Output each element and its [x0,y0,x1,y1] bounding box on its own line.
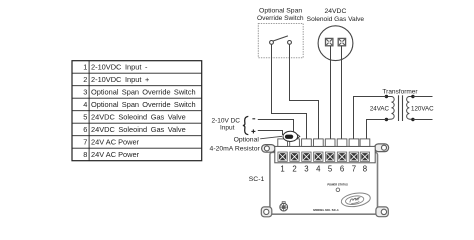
wire: 120VAC line bottom [413,119,433,121]
svg-text:7: 7 [352,165,356,174]
mounting ear top-left [262,145,276,153]
svg-text:24V AC Power: 24V AC Power [91,150,140,159]
legend row numbers 1-8 [83,63,87,160]
svg-text:2: 2 [83,75,87,84]
transformer T1 secondary winding (120VAC side) [407,97,413,120]
terminal numbers 1-8 [280,165,367,174]
mounting ear bottom-right [376,207,388,217]
terminal block [275,146,375,162]
brace { [243,116,248,134]
legend row descriptions [91,63,196,160]
svg-text:24VDC Soleoind Gas Valve: 24VDC Soleoind Gas Valve [91,125,186,134]
svg-text:Optional Span: Optional Span [259,7,302,14]
label: 24VAC [370,105,390,112]
svg-text:6: 6 [340,165,344,174]
svg-text:1: 1 [83,63,87,72]
label: Optional 4-20mA Resistor [210,137,261,153]
svg-text:2-10V DC: 2-10V DC [211,117,240,124]
svg-text:24V AC Power: 24V AC Power [91,138,140,147]
plus symbol [251,129,255,133]
manufacturer logo oval [340,191,371,208]
label: Optional Span Override Switch [257,7,304,22]
legend table border [72,61,202,161]
svg-text:8: 8 [363,165,367,174]
SC-1 enclosure body [270,152,378,214]
wire W7: transformer 24VAC top to terminal 7 [354,97,387,144]
label: 120VAC [411,105,434,112]
svg-text:5: 5 [328,165,333,174]
mounting ear bottom-left [261,207,272,217]
wire W8: transformer 24VAC bottom to terminal 8 [367,120,387,144]
svg-text:Override Switch: Override Switch [257,15,304,22]
svg-text:Transformer: Transformer [382,89,418,96]
wire entry slots 1-8 [278,139,370,147]
transformer T1 core [399,95,403,121]
wire W1: input minus to terminal 2 [258,120,294,135]
label: model no SC-1 [313,208,339,212]
svg-text:Optional Span Override Switch: Optional Span Override Switch [91,88,196,97]
svg-text:Input: Input [220,124,235,131]
wire W5: valve terminal A to terminal 5 [330,46,332,143]
svg-text:4: 4 [83,100,87,109]
svg-text:3: 3 [304,165,308,174]
wire W2: input plus to terminal 1 [258,131,283,136]
solenoid valve SOL1 circle [318,26,353,61]
svg-text:POWER STATUS: POWER STATUS [327,183,348,187]
svg-text:7: 7 [83,138,87,147]
solenoid valve terminal A [326,38,333,45]
svg-text:120VAC: 120VAC [411,105,434,112]
svg-text:2: 2 [292,165,296,174]
label: Transformer [382,89,418,96]
svg-text:8: 8 [83,150,87,159]
label: power status [327,183,348,187]
svg-text:Optional Span Override Switch: Optional Span Override Switch [91,100,196,109]
label: 24VDC Solenoid Gas Valve [307,8,365,23]
svg-text:6: 6 [83,125,87,134]
resistor R1 (optional 4-20mA) [283,131,300,141]
svg-text:24VDC: 24VDC [324,8,346,15]
transformer terminal dots [385,95,415,121]
minus symbol [252,118,255,120]
svg-text:1: 1 [280,165,284,174]
solenoid valve terminal B [338,38,345,45]
wire W6: valve terminal B to terminal 6 [341,46,343,143]
switch S1 left pole [270,41,274,45]
certification seal [280,202,288,211]
svg-text:Optional: Optional [234,137,260,144]
wire W3: switch left pole to terminal 3 [272,44,307,143]
svg-text:MODEL NO. SC-1: MODEL NO. SC-1 [313,208,339,212]
transformer T1 primary winding (24VAC side) [386,97,394,120]
svg-text:3: 3 [83,88,87,97]
switch S1 enclosure box [258,24,303,58]
svg-text:2-10VDC Input +: 2-10VDC Input + [91,75,149,84]
leader line to resistor R1 [260,136,282,139]
svg-text:24VDC Soleoind Gas Valve: 24VDC Soleoind Gas Valve [91,113,186,122]
label: SC-1 [249,176,265,183]
wire W4: switch right pole to terminal 4 [290,44,319,143]
svg-text:SC-1: SC-1 [249,176,265,183]
screw terminals 1-8 [278,152,370,161]
svg-text:4: 4 [316,165,321,174]
svg-text:24VAC: 24VAC [370,105,390,112]
svg-text:5: 5 [83,113,87,122]
mounting ear top-right [375,144,389,152]
wire: 120VAC line top [413,96,433,98]
label: 2-10V DC Input [211,117,240,131]
switch S1 arm [273,36,288,41]
legend table column divider [88,61,90,161]
legend table row lines [72,73,202,148]
power status LED [336,188,340,192]
svg-text:4-20mA Resistor: 4-20mA Resistor [210,145,261,152]
svg-text:Solenoid Gas Valve: Solenoid Gas Valve [307,16,365,23]
switch S1 right pole [288,41,292,45]
svg-text:2-10VDC Input -: 2-10VDC Input - [91,63,148,72]
